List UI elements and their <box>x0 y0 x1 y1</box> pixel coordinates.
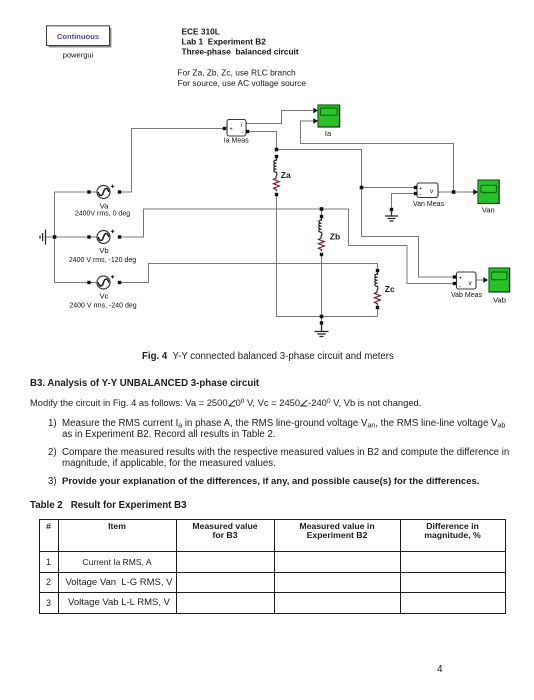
wire Ia Meas i output to scope Ia input 1 <box>246 111 314 124</box>
svg-text:-: - <box>242 131 244 137</box>
wire Va right port to Ia Meas input <box>120 129 225 193</box>
svg-text:Ia Meas: Ia Meas <box>224 138 249 145</box>
wire Za bottom to neutral rail <box>276 196 278 317</box>
wire node A branch to Van Meas plus <box>362 187 416 189</box>
paragraph <box>30 397 421 408</box>
wire neutral rail <box>277 316 378 318</box>
node junction neutral rail <box>320 315 324 319</box>
svg-text:Lab 1 Experiment B2: Lab 1 Experiment B2 <box>182 37 267 47</box>
svg-text:-: - <box>459 284 461 290</box>
list item 2 <box>48 447 57 458</box>
figure caption <box>142 351 394 362</box>
svg-text:ECE 310L: ECE 310L <box>182 27 220 37</box>
ground (Van Meas) <box>385 208 398 221</box>
impedance Za (series RL branch) <box>274 155 280 196</box>
wire bus to Va left port <box>55 191 98 193</box>
node A junction <box>275 148 279 152</box>
svg-text:2400 V rms, -120 deg: 2400 V rms, -120 deg <box>69 257 136 264</box>
svg-text:Za: Za <box>281 170 291 180</box>
svg-text:For Za, Zb, Zc, use RLC branch: For Za, Zb, Zc, use RLC branch <box>178 68 297 78</box>
wire left neutral bus <box>54 192 56 283</box>
annotation: model title <box>178 27 307 88</box>
svg-text:+: + <box>230 127 233 133</box>
table title <box>30 500 186 511</box>
svg-text:2400V rms, 0 deg: 2400V rms, 0 deg <box>75 210 130 217</box>
wire Vc right port to Zc top <box>120 264 378 283</box>
page number <box>437 664 443 675</box>
ground (source bus, sideways) <box>40 230 46 245</box>
svg-text:Vab Meas: Vab Meas <box>451 292 482 299</box>
scope Van <box>473 180 499 204</box>
svg-text:Van: Van <box>482 206 495 215</box>
svg-text:Vc: Vc <box>100 292 109 301</box>
wire Van Meas output to scope Van <box>438 191 474 193</box>
svg-text:Vab: Vab <box>493 296 506 305</box>
wire node A to Van Meas plus and Vab Meas plus <box>277 150 455 278</box>
svg-text:Ia: Ia <box>325 129 332 138</box>
wire bus to Vc left port <box>55 282 98 284</box>
results table <box>39 519 506 614</box>
node junction Van output to scope wire <box>452 190 456 194</box>
svg-text:Van Meas: Van Meas <box>413 201 444 208</box>
svg-text:Zb: Zb <box>330 232 340 242</box>
scope Vab <box>483 268 509 292</box>
list item 1 <box>48 418 57 429</box>
svg-text:Vb: Vb <box>99 246 108 255</box>
svg-text:Continuous: Continuous <box>57 32 99 41</box>
wire Vab Meas output to scope Vab <box>476 279 484 281</box>
wire Vb right port to Zb top and Vab Meas minus <box>120 209 455 284</box>
wire scope Ia input 2 from Van Meas output <box>301 121 454 192</box>
node B junction at Zb top <box>320 207 324 211</box>
svg-text:-: - <box>420 193 422 199</box>
svg-text:2400 V rms, -240 deg: 2400 V rms, -240 deg <box>69 302 136 309</box>
impedance Zc (series RL branch) <box>375 269 381 309</box>
AC voltage source Vb <box>87 230 121 244</box>
svg-text:Three-phase balanced circuit: Three-phase balanced circuit <box>182 47 299 57</box>
node junction phase A to Van Meas <box>360 186 364 190</box>
list item 3 <box>48 476 57 487</box>
svg-text:+: + <box>459 276 462 282</box>
wire neutral junction to ground <box>321 317 323 324</box>
wire Zc bottom to neutral rail <box>377 309 379 317</box>
svg-text:Zc: Zc <box>385 284 395 294</box>
node junction left bus to ground <box>53 235 57 239</box>
voltage measurement block Vab Meas <box>453 272 476 290</box>
powergui block <box>47 26 112 48</box>
voltage measurement block Van Meas <box>414 183 438 199</box>
section heading B3 <box>30 378 259 389</box>
scope Ia <box>313 105 339 127</box>
AC voltage source Vc <box>87 275 121 289</box>
wire Zb top junction stub <box>321 209 323 217</box>
ground (neutral) <box>315 321 329 336</box>
wire Ia Meas minus to node A <box>249 132 277 150</box>
svg-text:For source, use AC voltage sou: For source, use AC voltage source <box>178 78 307 88</box>
wire Zb bottom to neutral rail <box>321 256 323 317</box>
svg-text:+: + <box>419 186 422 192</box>
wire Van Meas minus to ground <box>392 194 416 210</box>
impedance Zb (series RL branch) <box>319 215 325 256</box>
wire bus junction to left ground <box>46 236 55 238</box>
AC voltage source Va <box>87 185 121 199</box>
svg-text:Va: Va <box>100 202 109 211</box>
current measurement block Ia Meas <box>223 120 249 137</box>
wire bus to Vb left port <box>55 236 98 238</box>
svg-text:powergui: powergui <box>63 51 94 60</box>
